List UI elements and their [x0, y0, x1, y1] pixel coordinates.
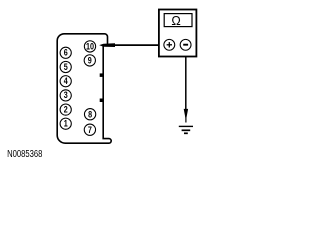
svg-text:N0085368: N0085368 — [7, 148, 42, 159]
svg-text:4: 4 — [64, 76, 68, 86]
svg-text:9: 9 — [88, 56, 92, 66]
svg-text:5: 5 — [64, 62, 68, 72]
svg-text:3: 3 — [64, 90, 68, 100]
svg-text:6: 6 — [64, 48, 68, 58]
svg-text:7: 7 — [88, 125, 92, 135]
svg-text:8: 8 — [88, 109, 92, 119]
svg-text:1: 1 — [64, 119, 68, 129]
svg-text:10: 10 — [86, 42, 94, 52]
svg-text:2: 2 — [64, 105, 68, 115]
svg-text:Ω: Ω — [171, 14, 180, 28]
